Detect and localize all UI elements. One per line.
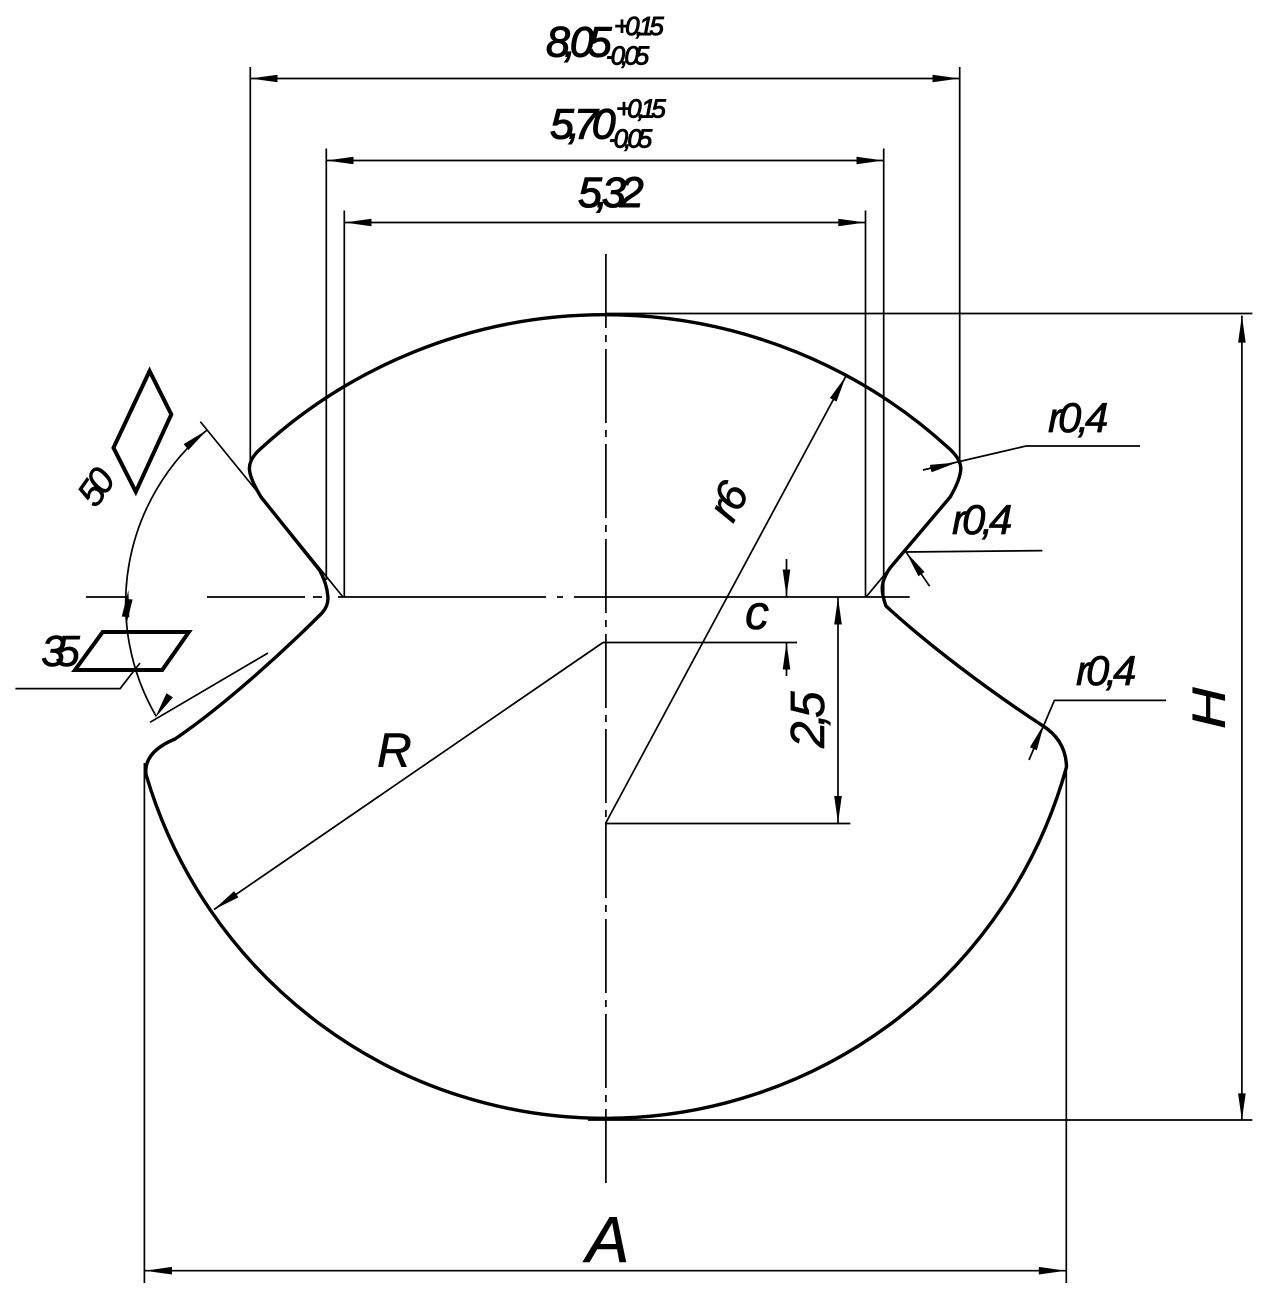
svg-text:5,32: 5,32 — [578, 169, 644, 217]
svg-text:-0,05: -0,05 — [609, 124, 653, 154]
svg-text:+0,15: +0,15 — [616, 94, 666, 124]
angle dimension arc — [126, 430, 207, 716]
leader r0,4 lower right — [1029, 700, 1166, 760]
extension line 8,05 left — [249, 67, 251, 463]
H top ref line — [606, 313, 1252, 315]
H bottom ref line — [588, 1119, 1252, 1121]
extension line 8,05 right — [959, 67, 961, 464]
radius leader r6 — [606, 376, 847, 824]
svg-text:+0,15: +0,15 — [614, 11, 664, 41]
svg-text:r0,4: r0,4 — [1076, 647, 1135, 694]
dim line 5,70 — [326, 160, 883, 162]
angle arc arrow upper — [184, 430, 207, 450]
svg-text:-0,05: -0,05 — [606, 41, 650, 71]
extension line 5,32 right — [865, 211, 867, 597]
svg-text:5,70: 5,70 — [550, 101, 616, 149]
angle arc middle arrows — [122, 590, 130, 617]
svg-text:r0,4: r0,4 — [1048, 394, 1107, 441]
2,5 bottom ref line — [605, 823, 850, 825]
svg-text:c: c — [745, 587, 769, 640]
A extension left — [143, 763, 145, 1283]
centerline vertical — [605, 254, 607, 1184]
dim A — [145, 1270, 1066, 1272]
dim H — [1241, 316, 1243, 1121]
A extension right — [1065, 770, 1067, 1283]
svg-text:r0,4: r0,4 — [952, 496, 1011, 543]
svg-text:8,05: 8,05 — [546, 19, 613, 67]
50 slope symbol — [114, 371, 172, 492]
svg-text:H: H — [1184, 687, 1235, 729]
35 leader shelf — [15, 663, 140, 689]
35 slope symbol — [75, 632, 189, 670]
radius leader R — [214, 643, 603, 910]
leader r0,4 mid right — [906, 551, 1042, 587]
dim 2,5 — [837, 598, 839, 824]
centerline horizontal — [86, 596, 322, 598]
right flank extension line — [867, 559, 898, 596]
dim line 8,05 — [250, 78, 959, 80]
angle arc arrow lower — [155, 693, 173, 718]
svg-text:R: R — [377, 725, 412, 778]
svg-text:A: A — [582, 1203, 629, 1276]
svg-text:2,5: 2,5 — [782, 691, 835, 749]
profile outline — [146, 315, 1067, 1119]
ref line y597 — [338, 596, 910, 598]
upper-left flank extension line — [200, 422, 342, 597]
extension line 5,70 left — [325, 149, 327, 581]
R center ref line (c bottom) — [603, 642, 797, 644]
leader r0,4 top right — [923, 446, 1140, 470]
extension line 5,32 left — [343, 211, 345, 597]
dim line 5,32 — [344, 222, 865, 224]
dim c — [786, 559, 788, 597]
lower-left flank extension line — [150, 653, 268, 722]
extension line 5,70 right — [883, 149, 885, 597]
